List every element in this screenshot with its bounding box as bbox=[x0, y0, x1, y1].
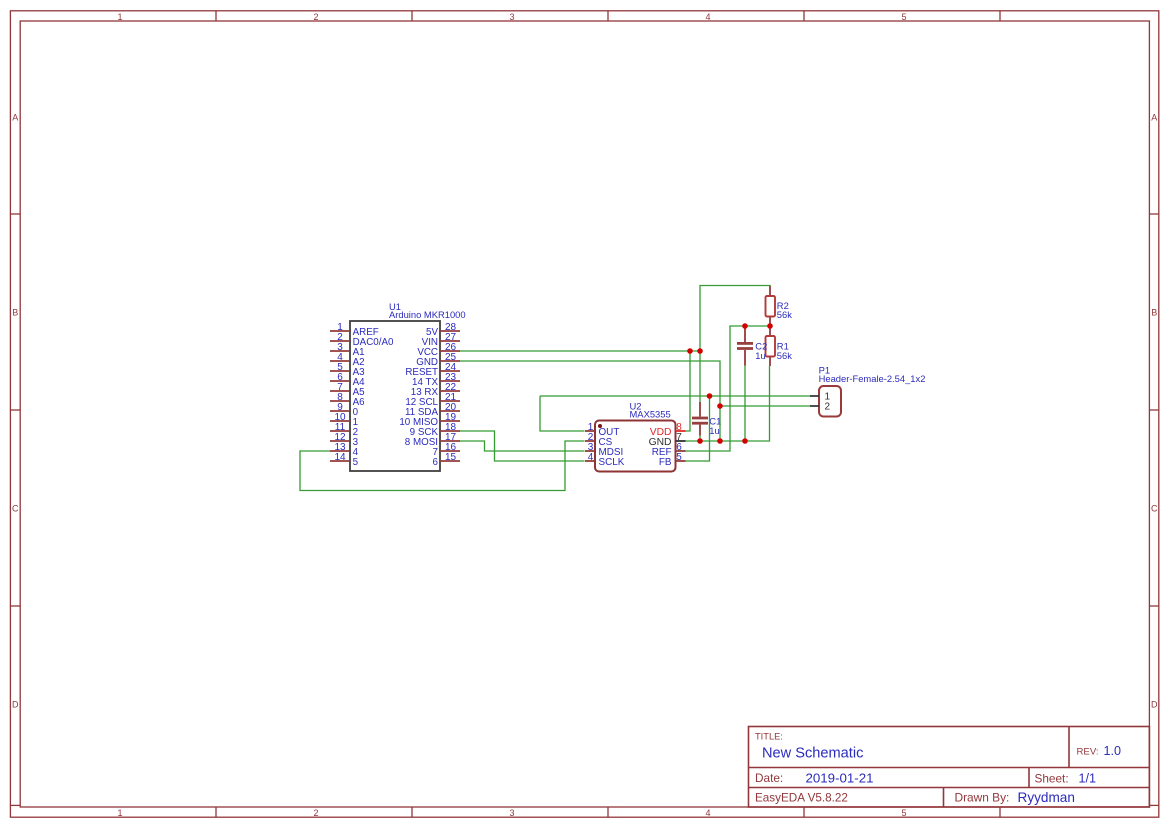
wire U2 FB pin5 riser to OUT net bbox=[686, 396, 710, 461]
svg-text:Date:: Date: bbox=[755, 771, 783, 785]
svg-text:56k: 56k bbox=[777, 350, 792, 361]
svg-text:5: 5 bbox=[353, 457, 359, 468]
junction C1 bottom on GND row bbox=[697, 438, 703, 444]
svg-text:4: 4 bbox=[588, 452, 594, 463]
svg-text:C: C bbox=[12, 503, 19, 513]
svg-text:D: D bbox=[1151, 699, 1158, 709]
resistor R1 bbox=[766, 326, 793, 366]
resistor R2 bbox=[766, 286, 793, 327]
U2 pin numbers bbox=[588, 422, 683, 463]
op-amp U2 MAX5355 body bbox=[595, 421, 676, 472]
wire node A up and over to R2 top bbox=[700, 286, 770, 352]
wire U1 pin18 SCK to U2 SCLK bbox=[460, 431, 585, 461]
svg-text:D: D bbox=[12, 699, 19, 709]
svg-text:2019-01-21: 2019-01-21 bbox=[806, 771, 874, 786]
svg-text:MAX5355: MAX5355 bbox=[630, 408, 671, 419]
title block values bbox=[762, 744, 1121, 805]
junction node A on VCC net bbox=[697, 348, 703, 354]
svg-text:4: 4 bbox=[705, 12, 710, 22]
svg-text:1u: 1u bbox=[709, 425, 719, 436]
U1 pin numbers bbox=[334, 322, 456, 463]
svg-text:2: 2 bbox=[313, 808, 318, 818]
op-amp U1 Arduino MKR1000 body bbox=[350, 321, 440, 471]
svg-text:14: 14 bbox=[334, 452, 346, 463]
wire node A to U2 VDD pin8 bbox=[686, 351, 691, 431]
svg-text:7: 7 bbox=[676, 432, 682, 443]
U2 pin 1 marker bbox=[598, 424, 602, 428]
svg-text:B: B bbox=[1151, 307, 1157, 317]
svg-text:TITLE:: TITLE: bbox=[755, 732, 783, 742]
svg-text:6: 6 bbox=[433, 457, 439, 468]
U1 reference labels bbox=[389, 301, 466, 320]
capacitor C2 bbox=[737, 326, 767, 366]
svg-text:3: 3 bbox=[509, 12, 514, 22]
svg-text:5: 5 bbox=[901, 808, 906, 818]
svg-text:5: 5 bbox=[676, 452, 682, 463]
junction C2 top on REF net bbox=[742, 323, 748, 329]
title block labels bbox=[755, 732, 1099, 805]
svg-text:2: 2 bbox=[825, 402, 831, 413]
wire GND pin25 right and down to GND row bbox=[460, 361, 720, 441]
junction FB tap on OUT net bbox=[707, 393, 713, 399]
junction R2-R1 divider node bbox=[767, 323, 773, 329]
svg-text:3: 3 bbox=[509, 808, 514, 818]
wire U1 pin13 loop to U2 CS bbox=[300, 441, 585, 491]
wire C2 bottom to GND row bbox=[744, 366, 746, 442]
svg-text:SCLK: SCLK bbox=[599, 457, 625, 468]
wire U2 REF pin6 riser to divider node bbox=[686, 326, 771, 451]
wire U2 OUT pin1 stub run bbox=[540, 396, 585, 431]
junction VDD tap on VCC net bbox=[687, 348, 693, 354]
svg-text:1: 1 bbox=[117, 12, 122, 22]
svg-text:C: C bbox=[1151, 503, 1158, 513]
svg-text:5: 5 bbox=[901, 12, 906, 22]
svg-text:1u: 1u bbox=[755, 350, 765, 361]
junction P1 pin2 tap on GND net bbox=[717, 403, 723, 409]
U2 pin stubs bbox=[585, 431, 686, 461]
wire U1 pin17 MOSI to U2 MDSI bbox=[460, 441, 585, 451]
U2 reference labels bbox=[630, 400, 671, 419]
svg-text:GND: GND bbox=[649, 437, 672, 448]
svg-text:FB: FB bbox=[659, 457, 672, 468]
wire node A down to C1 top bbox=[699, 351, 701, 402]
svg-text:A: A bbox=[1151, 112, 1157, 122]
junction GND drop on GND row bbox=[717, 438, 723, 444]
svg-text:4: 4 bbox=[705, 808, 710, 818]
U1 pin stubs bbox=[330, 331, 460, 461]
svg-text:Arduino MKR1000: Arduino MKR1000 bbox=[389, 309, 466, 320]
svg-text:1.0: 1.0 bbox=[1104, 744, 1122, 758]
svg-text:56k: 56k bbox=[777, 309, 792, 320]
wire OUT net to P1 pin1 bbox=[540, 395, 810, 397]
U1 pin names bbox=[353, 327, 394, 468]
junction C2 bottom on GND row bbox=[742, 438, 748, 444]
title block bbox=[749, 727, 1150, 808]
svg-text:2: 2 bbox=[313, 12, 318, 22]
svg-text:Header-Female-2.54_1x2: Header-Female-2.54_1x2 bbox=[819, 373, 926, 384]
svg-text:Ryydman: Ryydman bbox=[1018, 790, 1075, 805]
svg-text:Sheet:: Sheet: bbox=[1035, 772, 1069, 786]
svg-text:B: B bbox=[12, 307, 18, 317]
wire VCC pin26 to node A bbox=[460, 350, 700, 352]
wire GND net to P1 pin2 bbox=[720, 405, 810, 407]
svg-text:Drawn By:: Drawn By: bbox=[955, 791, 1010, 805]
svg-text:1/1: 1/1 bbox=[1079, 772, 1097, 786]
U2 pin names bbox=[599, 427, 672, 468]
connector P1 Header-Female bbox=[810, 365, 925, 417]
svg-text:1: 1 bbox=[117, 808, 122, 818]
svg-text:New Schematic: New Schematic bbox=[762, 746, 863, 762]
svg-text:EasyEDA V5.8.22: EasyEDA V5.8.22 bbox=[755, 792, 848, 805]
svg-text:A: A bbox=[12, 112, 18, 122]
svg-text:REV:: REV: bbox=[1077, 747, 1099, 758]
svg-text:15: 15 bbox=[445, 452, 457, 463]
capacitor C1 bbox=[692, 402, 721, 436]
wire GND row U2 pin7 to R1 bottom bbox=[686, 366, 770, 442]
wire C1 bottom to GND row bbox=[699, 436, 701, 442]
